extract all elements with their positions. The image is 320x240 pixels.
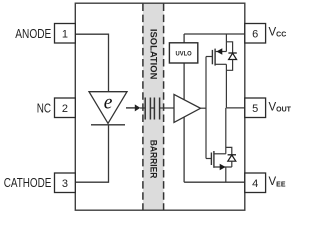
svg-text:3: 3 xyxy=(62,178,68,190)
light arrow from LED to barrier xyxy=(126,104,140,111)
svg-text:4: 4 xyxy=(252,178,258,190)
transistor Q1 (upper PMOS) gate lead xyxy=(206,56,212,58)
amplifier U1 xyxy=(174,94,201,122)
Q2 drain lead xyxy=(214,153,226,155)
pin 4 box xyxy=(245,173,266,193)
wire: UVLO top to Vcc rail xyxy=(183,34,185,43)
pin 5 box xyxy=(245,98,266,118)
svg-text:1: 1 xyxy=(62,29,68,41)
svg-text:e: e xyxy=(104,92,113,113)
svg-text:NC: NC xyxy=(37,101,51,115)
Vout wire xyxy=(226,107,244,109)
Q1 gate bar xyxy=(211,50,213,64)
UVLO block xyxy=(169,43,197,63)
wire between C1 and C2 xyxy=(150,107,154,109)
wire: Vout node down to Q2 drain xyxy=(225,108,227,154)
barrier text BARRIER xyxy=(148,140,158,179)
isolation barrier dashed borders xyxy=(143,4,164,211)
D2 triangle xyxy=(229,53,237,59)
D3 cathode bar xyxy=(228,154,236,156)
Q1 source lead with arrow xyxy=(215,48,226,54)
D3 anode lead xyxy=(231,161,233,167)
wire: LED cathode to pin3 xyxy=(75,125,108,182)
label Vcc xyxy=(269,26,287,38)
wire: Vcc rail down to Q1 xyxy=(225,34,227,52)
capacitor C2 plates xyxy=(154,98,159,120)
D2 anode jog xyxy=(226,60,232,71)
svg-text:6: 6 xyxy=(252,29,258,41)
wire: amp output to gate line xyxy=(201,107,207,109)
label Vout xyxy=(269,101,292,113)
isolation barrier fill xyxy=(143,3,164,210)
Q2 channel bar xyxy=(213,151,215,168)
wire: Q1 drain down to Vout node xyxy=(225,64,227,108)
pin 6 box xyxy=(245,24,266,44)
Q1 channel bar xyxy=(214,49,216,66)
Q1 drain lead xyxy=(215,63,226,65)
svg-text:ISOLATION: ISOLATION xyxy=(148,29,158,80)
LED cathode bar xyxy=(91,124,125,126)
Q2 source lead with arrow xyxy=(214,164,232,170)
Vee rail xyxy=(184,181,245,183)
capacitor C1 left lead xyxy=(140,107,145,109)
svg-text:UVLO: UVLO xyxy=(176,51,192,58)
wire: C2 to amplifier input xyxy=(160,107,174,109)
LED label e xyxy=(104,92,113,113)
wire: anode pin1 to LED top xyxy=(75,34,108,91)
transistor Q2 (lower NMOS) gate lead xyxy=(206,158,211,160)
label CATHODE xyxy=(4,176,52,190)
wire: Q2 source down to Vee rail xyxy=(225,167,227,182)
svg-text:ANODE: ANODE xyxy=(15,27,51,41)
svg-text:5: 5 xyxy=(252,103,258,115)
wire: UVLO bottom / amp supply / Vee return xyxy=(183,63,185,182)
pin 1 box xyxy=(55,24,76,44)
svg-text:2: 2 xyxy=(62,103,68,115)
diode D3 (Q2 body diode) top jog xyxy=(226,147,232,154)
svg-text:BARRIER: BARRIER xyxy=(148,140,158,179)
pin 2 box xyxy=(55,98,76,118)
svg-text:CATHODE: CATHODE xyxy=(4,176,52,190)
label NC xyxy=(37,101,51,115)
Q2 gate bar xyxy=(210,153,212,166)
LED emitter D1 triangle xyxy=(89,92,127,124)
pin 3 box xyxy=(55,173,76,193)
D3 triangle xyxy=(228,155,236,161)
diode D2 (Q1 body diode) top jog xyxy=(226,42,232,53)
D2 cathode bar xyxy=(228,52,236,54)
label ANODE xyxy=(15,27,51,41)
capacitor C1 plates xyxy=(145,98,150,120)
Vcc rail xyxy=(184,33,245,35)
gate line vertical xyxy=(205,57,207,159)
chip body outline xyxy=(75,3,245,210)
label Vee xyxy=(269,176,286,188)
barrier text ISOLATION xyxy=(148,29,158,80)
